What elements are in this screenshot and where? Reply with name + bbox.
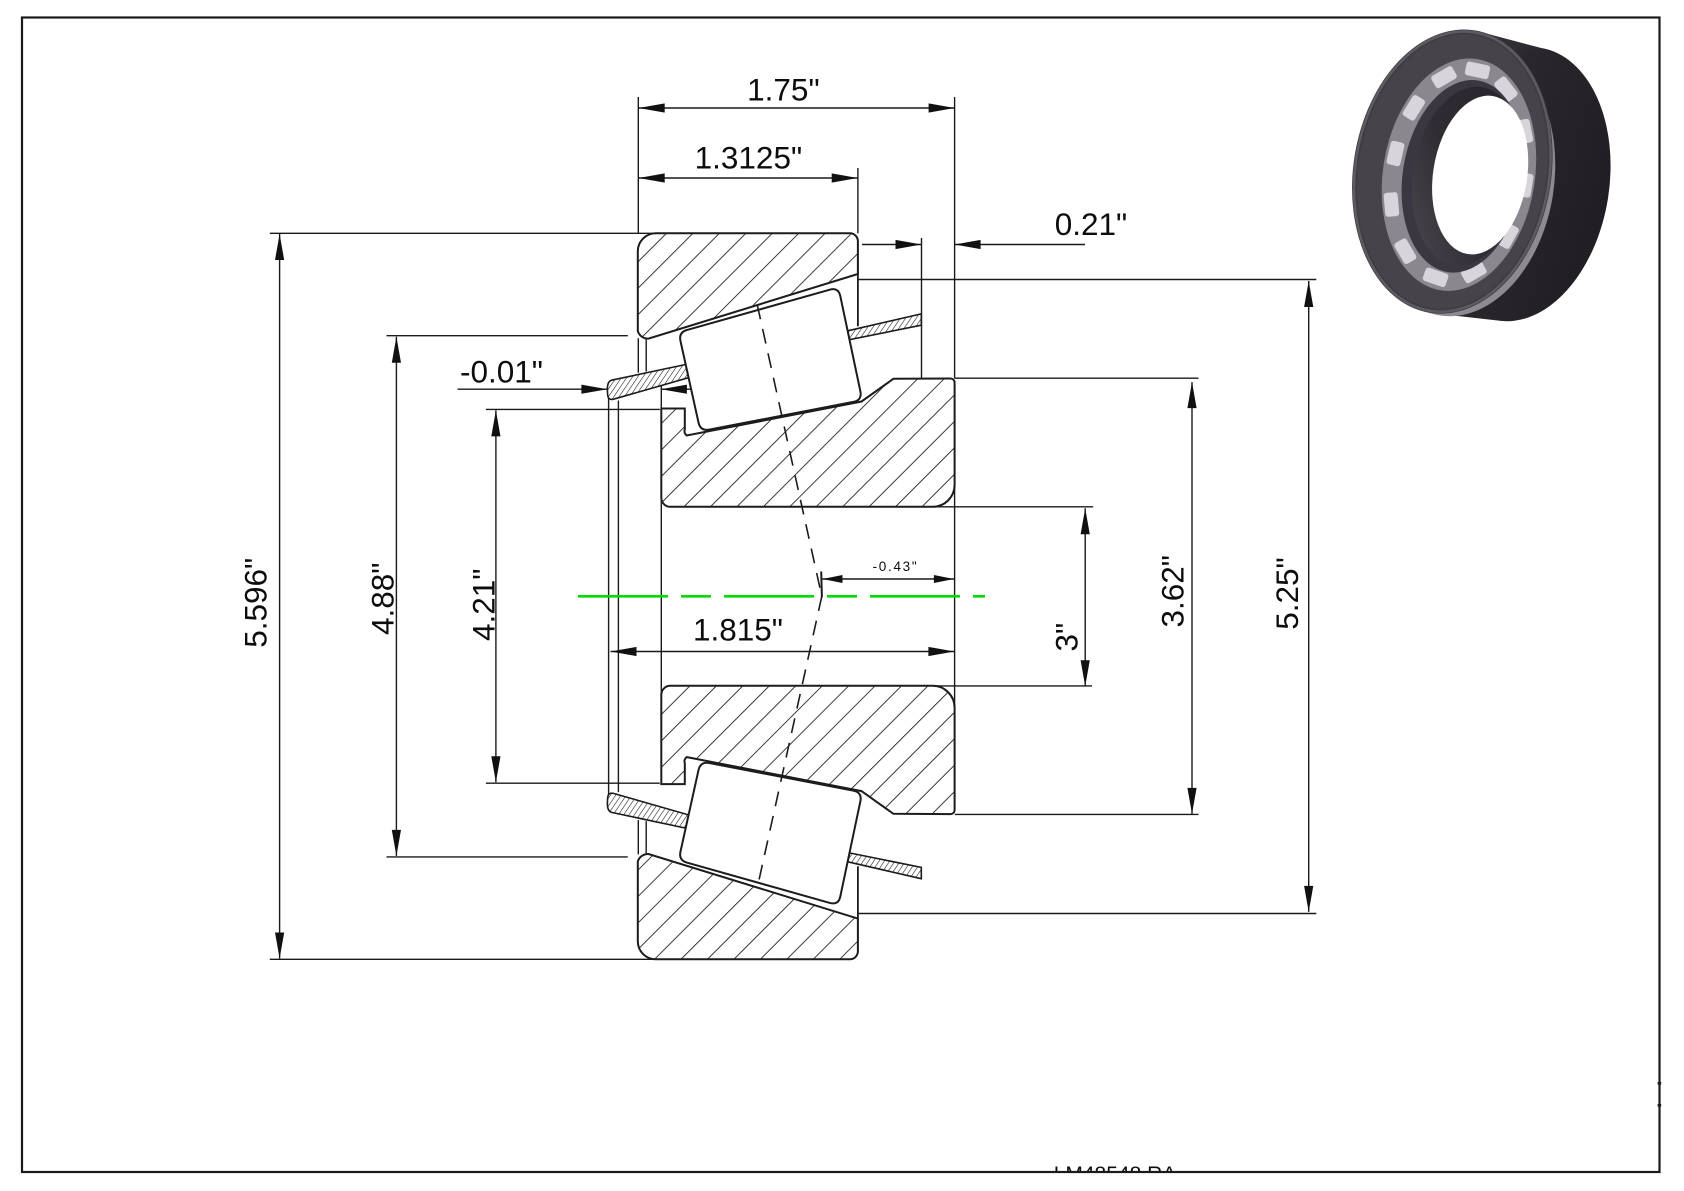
- small marks on right border: [1658, 1082, 1662, 1085]
- svg-text:0.21": 0.21": [1055, 206, 1128, 242]
- cage front strip lower (mirror): [607, 793, 688, 828]
- cage sliver poking below: [1348, 32, 1574, 330]
- svg-text:3.62": 3.62": [1155, 555, 1191, 628]
- svg-text:4.88": 4.88": [365, 563, 401, 636]
- outer ring (cup) bottom cross-section: [638, 854, 858, 959]
- svg-text:-0.01": -0.01": [460, 354, 543, 390]
- cup front OD edge lines: [857, 274, 859, 919]
- inner ring face: [1388, 71, 1537, 281]
- apex tick: [820, 572, 823, 598]
- tapered roller top: [680, 289, 861, 430]
- cage strip lower right (mirror): [848, 853, 922, 879]
- bearing front face ring: [1332, 15, 1572, 328]
- tapered roller bottom: [680, 763, 861, 904]
- svg-text:5.596": 5.596": [238, 558, 274, 648]
- svg-text:5.25": 5.25": [1269, 557, 1305, 630]
- center hole: [1421, 89, 1539, 262]
- bore inner surface: [1399, 79, 1536, 274]
- svg-text:3": 3": [1049, 623, 1085, 652]
- dimension and extension lines: [270, 97, 1317, 959]
- svg-text:4.21": 4.21": [466, 569, 502, 642]
- svg-text:-0.43": -0.43": [873, 559, 919, 574]
- inner ring (cone) top cross-section: [661, 379, 954, 507]
- cage strip upper right: [848, 314, 922, 340]
- outer ring (cup) top cross-section: [638, 233, 858, 338]
- roller axis dashed bottom: [757, 596, 822, 888]
- inner ring (cone) bottom cross-section: [661, 686, 954, 814]
- svg-text:1.75": 1.75": [747, 72, 820, 108]
- bearing outer cylinder (depth): [1430, 30, 1631, 337]
- roller axis dashed top: [757, 305, 822, 597]
- green center line: [578, 595, 985, 598]
- cage ring and rollers: [1366, 47, 1553, 302]
- cage front strip upper: [607, 365, 688, 400]
- svg-text:1.815": 1.815": [693, 612, 783, 648]
- svg-text:1.3125": 1.3125": [695, 140, 803, 176]
- dimension arrowheads: [275, 103, 1313, 958]
